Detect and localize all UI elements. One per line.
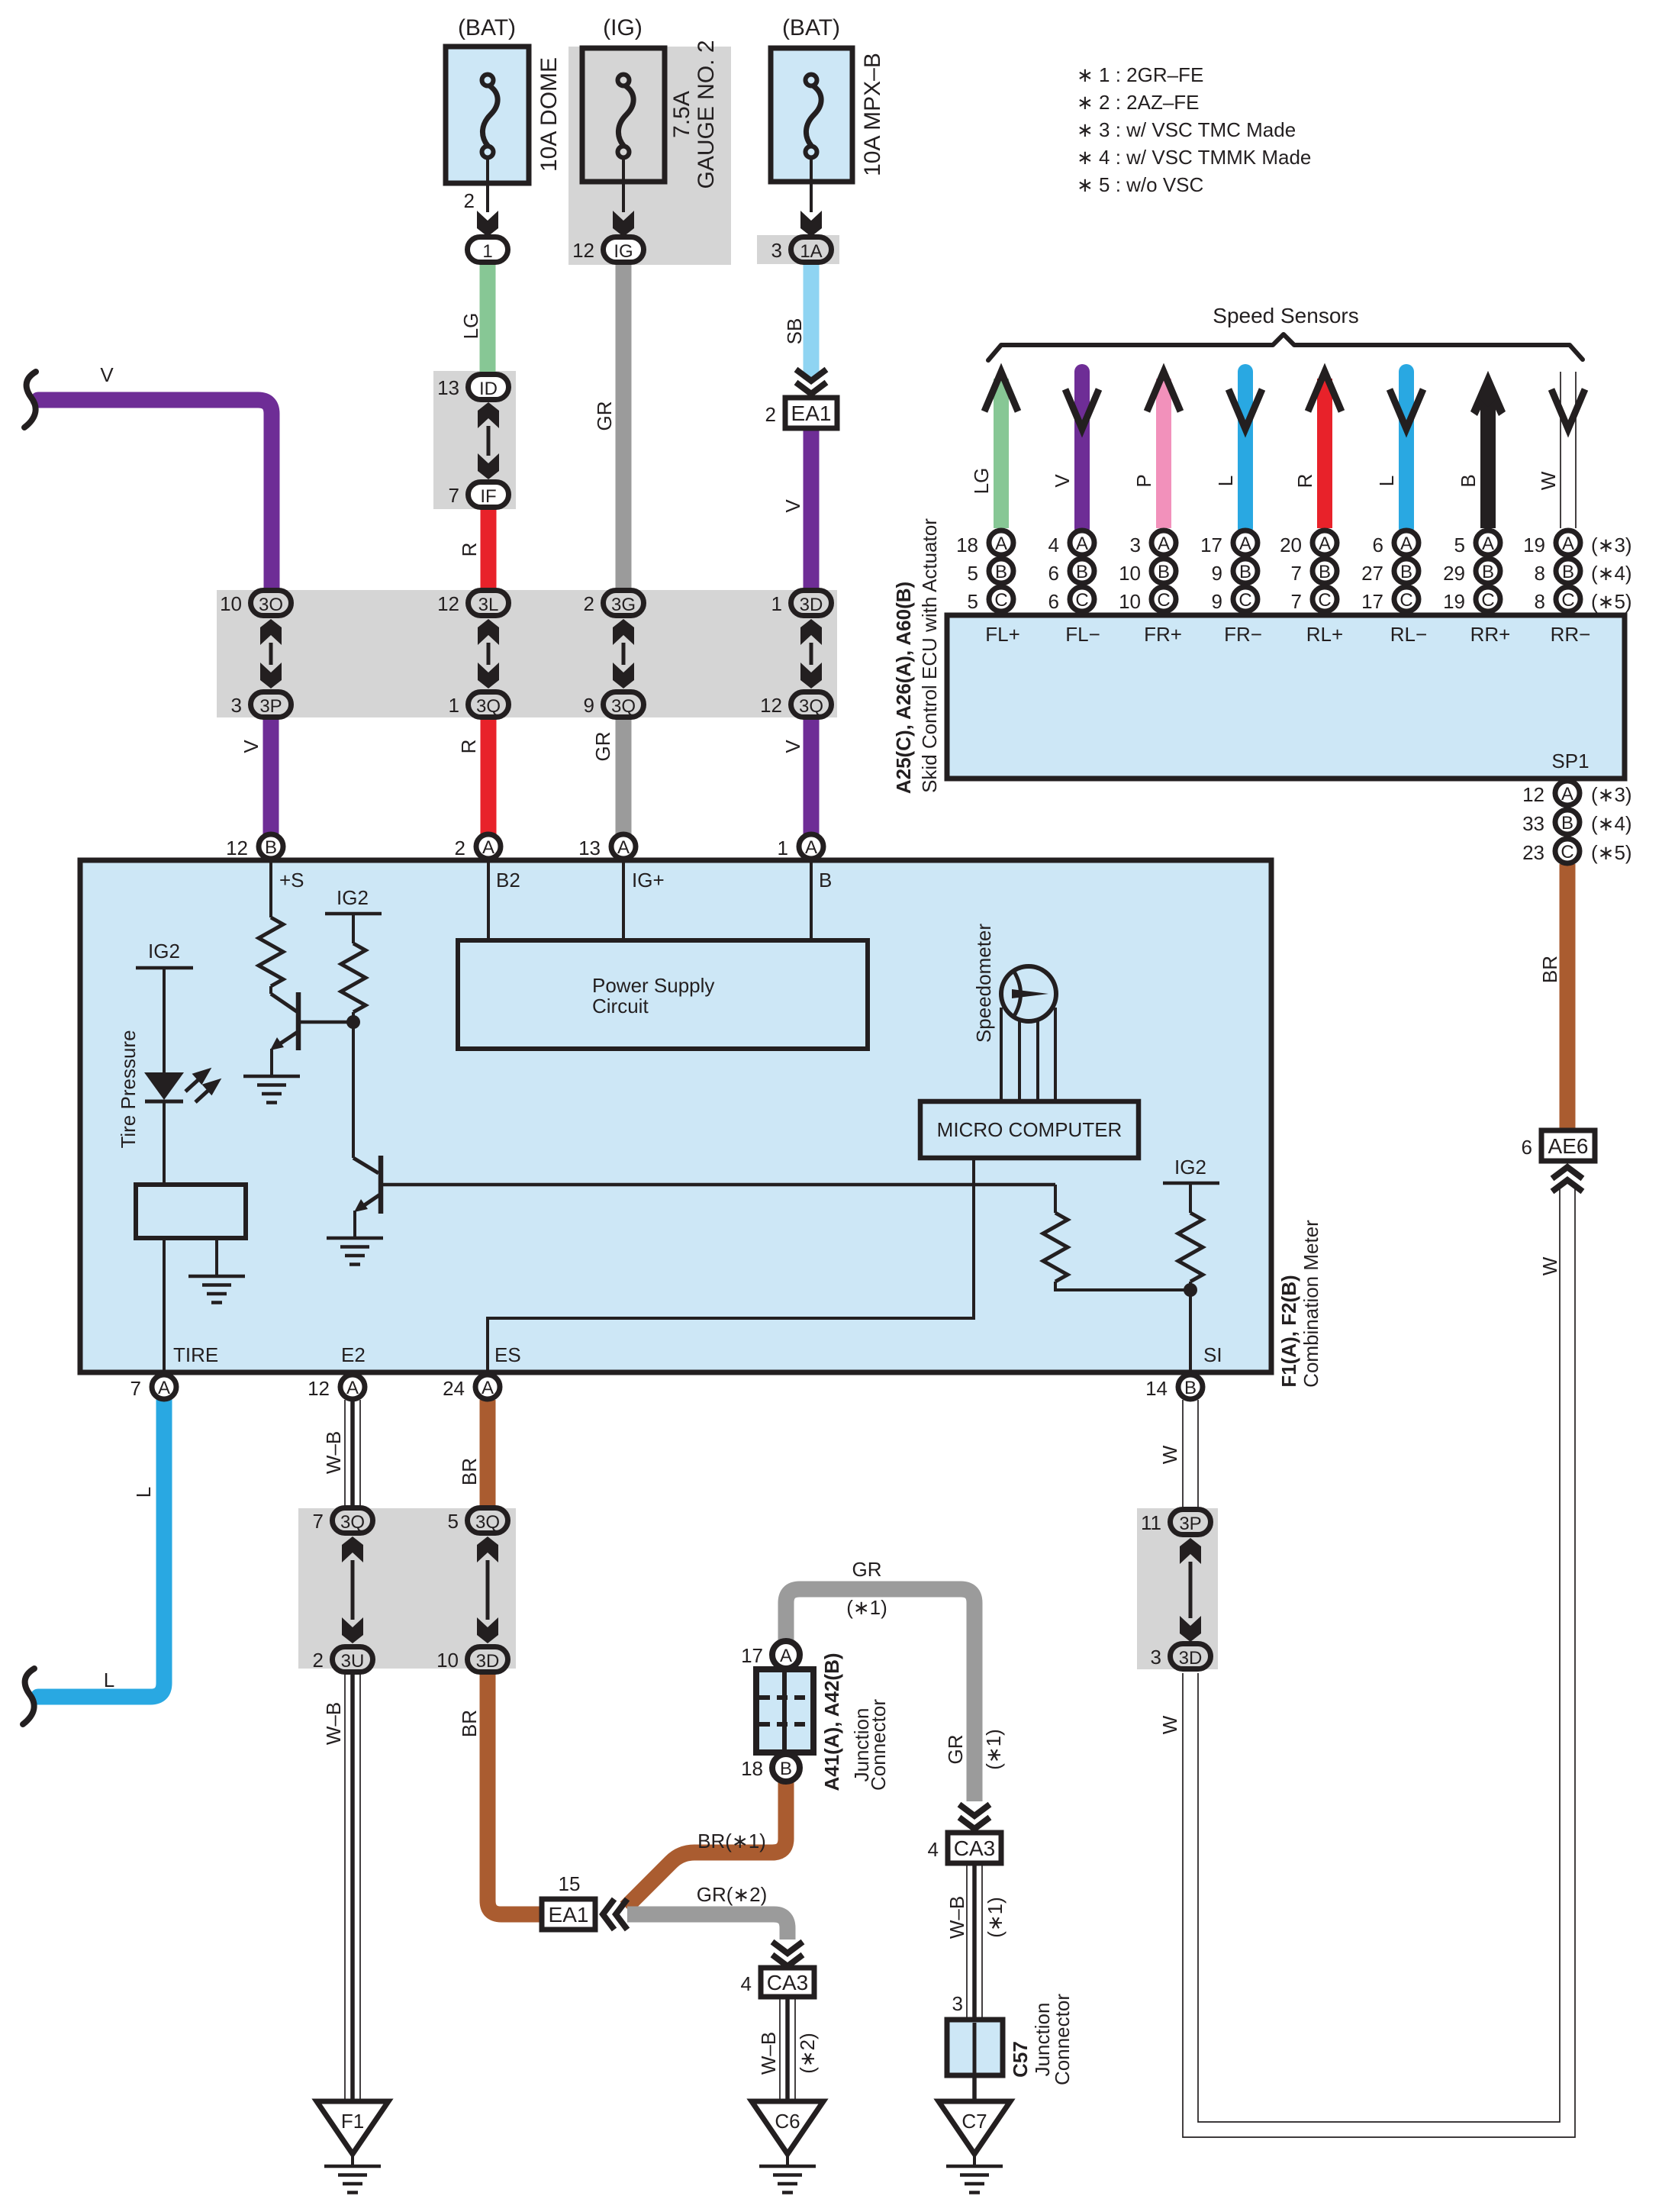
svg-text:2: 2 bbox=[464, 189, 475, 212]
svg-text:A: A bbox=[805, 837, 817, 858]
svg-text:Power Supply: Power Supply bbox=[592, 974, 714, 997]
svg-text:3Q: 3Q bbox=[340, 1512, 365, 1533]
svg-text:W–B: W–B bbox=[945, 1896, 968, 1939]
svg-text:(BAT): (BAT) bbox=[782, 15, 840, 40]
wire R 3Q to meter pin A2 bbox=[481, 717, 497, 835]
svg-text:W: W bbox=[1158, 1715, 1181, 1734]
double arrow 3P-3D bbox=[1180, 1538, 1201, 1564]
svg-text:Skid Control ECU with Actuator: Skid Control ECU with Actuator bbox=[918, 518, 941, 793]
svg-text:A: A bbox=[346, 1378, 359, 1398]
speed sensor FL+ wire LG bbox=[994, 379, 1009, 528]
svg-text:10: 10 bbox=[1119, 562, 1141, 585]
double arrow 3Q-3D bbox=[477, 1536, 498, 1562]
svg-text:3U: 3U bbox=[341, 1651, 365, 1672]
grey panel behind IG fuse bbox=[568, 47, 731, 265]
wire V horizontal from off-page left bbox=[38, 400, 272, 588]
double chevron into EA1 top bbox=[796, 369, 826, 394]
svg-text:IG2: IG2 bbox=[1174, 1156, 1206, 1179]
svg-text:Speedometer: Speedometer bbox=[972, 924, 995, 1043]
svg-text:19: 19 bbox=[1443, 590, 1465, 613]
svg-text:8: 8 bbox=[1535, 590, 1545, 613]
svg-text:6: 6 bbox=[1373, 534, 1383, 556]
svg-text:ID: ID bbox=[479, 379, 498, 399]
svg-text:23: 23 bbox=[1522, 841, 1544, 864]
speed sensor FR+ wire P bbox=[1156, 379, 1171, 528]
wire R connector IF to 3L bbox=[481, 507, 497, 590]
transistor 2 bbox=[353, 1158, 378, 1173]
svg-text:(∗1): (∗1) bbox=[982, 1729, 1005, 1770]
svg-text:12: 12 bbox=[437, 592, 459, 615]
LED tire pressure bbox=[144, 1072, 184, 1100]
wire BR junction connector B to EA1 chevrons bbox=[626, 1775, 786, 1907]
svg-text:33: 33 bbox=[1522, 812, 1544, 835]
wire BR ES pin to 3Q bbox=[480, 1400, 496, 1507]
svg-text:V: V bbox=[100, 363, 114, 386]
svg-text:BR: BR bbox=[1538, 956, 1561, 983]
svg-text:A: A bbox=[158, 1378, 170, 1398]
wire W-B E2 pin to 3Q bbox=[345, 1400, 360, 1507]
svg-text:B: B bbox=[1562, 562, 1574, 582]
+S resistor bbox=[269, 861, 272, 917]
grey panel behind connectors ID/IF bbox=[433, 371, 516, 509]
svg-text:9: 9 bbox=[584, 694, 594, 717]
svg-text:C: C bbox=[1561, 842, 1573, 863]
svg-text:A: A bbox=[1076, 534, 1088, 554]
svg-text:B: B bbox=[1457, 474, 1480, 487]
svg-text:15: 15 bbox=[559, 1872, 581, 1895]
svg-text:R: R bbox=[458, 543, 481, 557]
wire W-B(*1) CA3 to junction connector C57 bbox=[967, 1860, 982, 2020]
svg-text:IF: IF bbox=[480, 486, 496, 507]
svg-text:EA1: EA1 bbox=[549, 1903, 589, 1927]
svg-text:FL−: FL− bbox=[1065, 623, 1100, 646]
svg-text:B: B bbox=[1158, 562, 1170, 582]
svg-text:3: 3 bbox=[952, 1992, 963, 2015]
svg-text:C: C bbox=[1481, 590, 1494, 611]
brace over speed sensors bbox=[988, 334, 1583, 360]
wire BR 3D to EA1 bbox=[488, 1673, 543, 1914]
svg-text:B: B bbox=[1319, 562, 1331, 582]
svg-text:AE6: AE6 bbox=[1548, 1134, 1589, 1158]
svg-text:3: 3 bbox=[1151, 1646, 1161, 1669]
fuse 10A MPX-B bbox=[771, 48, 852, 182]
svg-text:W–B: W–B bbox=[322, 1702, 345, 1745]
svg-text:SI: SI bbox=[1203, 1343, 1222, 1366]
svg-text:(BAT): (BAT) bbox=[458, 15, 516, 40]
svg-text:7: 7 bbox=[130, 1377, 141, 1400]
svg-text:3Q: 3Q bbox=[475, 1512, 500, 1533]
svg-text:(∗4): (∗4) bbox=[1591, 562, 1632, 585]
svg-text:Speed Sensors: Speed Sensors bbox=[1213, 304, 1358, 327]
svg-text:A: A bbox=[1561, 784, 1573, 805]
svg-text:FR+: FR+ bbox=[1144, 623, 1182, 646]
svg-text:11: 11 bbox=[1141, 1511, 1161, 1534]
svg-text:∗ 5 : w/o VSC: ∗ 5 : w/o VSC bbox=[1077, 173, 1203, 196]
svg-text:5: 5 bbox=[1454, 534, 1465, 556]
svg-text:(∗5): (∗5) bbox=[1591, 590, 1632, 613]
svg-text:CA3: CA3 bbox=[767, 1971, 808, 1994]
svg-text:C: C bbox=[1399, 590, 1412, 611]
wire W-B CA3 to ground C6 bbox=[780, 1997, 795, 2101]
svg-text:2: 2 bbox=[455, 837, 465, 859]
svg-text:RR−: RR− bbox=[1551, 623, 1591, 646]
IG2 resistor bbox=[341, 943, 366, 1012]
svg-text:EA1: EA1 bbox=[791, 401, 832, 425]
svg-text:7: 7 bbox=[313, 1510, 324, 1533]
svg-text:W–B: W–B bbox=[322, 1431, 345, 1474]
svg-text:3D: 3D bbox=[476, 1651, 500, 1672]
svg-text:3P: 3P bbox=[1179, 1514, 1201, 1534]
speed sensor FL- wire V bbox=[1074, 372, 1090, 528]
wire SB fuse MPX-B to EA1 bbox=[804, 263, 820, 379]
svg-text:L: L bbox=[104, 1669, 114, 1691]
svg-text:V: V bbox=[781, 499, 804, 513]
svg-text:9: 9 bbox=[1212, 562, 1222, 585]
svg-text:18: 18 bbox=[956, 534, 978, 556]
wire W SI pin to 3P bbox=[1183, 1400, 1198, 1507]
svg-text:A: A bbox=[1562, 534, 1574, 554]
wire W-B 3U to ground F1 bbox=[345, 1673, 360, 2101]
wire BR SP1 C to AE6 bbox=[1560, 864, 1576, 1130]
svg-text:3G: 3G bbox=[611, 595, 636, 615]
svg-text:CA3: CA3 bbox=[954, 1836, 995, 1860]
double arrow 3G-3Q bbox=[613, 619, 634, 645]
svg-text:5: 5 bbox=[968, 590, 978, 613]
svg-text:12: 12 bbox=[572, 239, 594, 262]
svg-text:3L: 3L bbox=[478, 595, 499, 615]
svg-text:12: 12 bbox=[226, 837, 248, 859]
skid control ECU box bbox=[947, 615, 1625, 779]
svg-text:SP1: SP1 bbox=[1551, 750, 1589, 772]
wire LED to relay box bbox=[163, 1101, 166, 1185]
wire LG fuse DOME to ID bbox=[480, 263, 496, 374]
svg-text:(∗3): (∗3) bbox=[1591, 783, 1632, 806]
svg-text:Connector: Connector bbox=[867, 1699, 890, 1791]
svg-text:1A: 1A bbox=[800, 241, 822, 262]
svg-text:7: 7 bbox=[1291, 562, 1302, 585]
svg-text:(∗2): (∗2) bbox=[796, 2033, 819, 2074]
chevrons into EA1 bbox=[603, 1899, 627, 1930]
connector 4 CA3 right bbox=[948, 1833, 1001, 1863]
svg-text:GR: GR bbox=[852, 1558, 882, 1581]
svg-text:C: C bbox=[994, 590, 1007, 611]
svg-text:LG: LG bbox=[459, 313, 482, 340]
svg-text:W: W bbox=[1538, 1256, 1561, 1275]
svg-text:P: P bbox=[1132, 474, 1155, 487]
svg-text:(∗1): (∗1) bbox=[984, 1897, 1007, 1938]
svg-text:5: 5 bbox=[968, 562, 978, 585]
combination meter box bbox=[80, 860, 1271, 1372]
wire GR fuse GAUGE to 3G bbox=[616, 263, 632, 590]
svg-text:3D: 3D bbox=[800, 595, 823, 615]
svg-text:10: 10 bbox=[436, 1649, 459, 1672]
fuse 7.5A GAUGE NO.2 bbox=[582, 48, 665, 182]
svg-text:6: 6 bbox=[1522, 1136, 1532, 1159]
svg-text:3: 3 bbox=[1130, 534, 1141, 556]
ground C7 bbox=[939, 2101, 1010, 2166]
svg-text:3: 3 bbox=[231, 694, 242, 717]
svg-text:8: 8 bbox=[1535, 562, 1545, 585]
svg-text:2: 2 bbox=[584, 592, 594, 615]
wire C57 to ground C7 bbox=[972, 2075, 977, 2101]
svg-text:LG: LG bbox=[970, 468, 993, 495]
svg-text:L: L bbox=[132, 1487, 155, 1498]
wire ES to micro computer bbox=[488, 1158, 974, 1374]
svg-text:3D: 3D bbox=[1179, 1648, 1203, 1669]
svg-text:L: L bbox=[1214, 476, 1237, 486]
svg-text:10A MPX–B: 10A MPX–B bbox=[860, 53, 885, 176]
speed sensor RL+ wire R bbox=[1317, 379, 1332, 528]
svg-text:10: 10 bbox=[1119, 590, 1141, 613]
svg-text:24: 24 bbox=[443, 1377, 465, 1400]
svg-text:12: 12 bbox=[308, 1377, 330, 1400]
connector 4 CA3 left bbox=[761, 1968, 814, 1997]
svg-text:6: 6 bbox=[1048, 562, 1059, 585]
svg-text:17: 17 bbox=[741, 1644, 763, 1667]
svg-text:C57: C57 bbox=[1009, 2041, 1032, 2078]
ground F1 bbox=[317, 2101, 388, 2166]
ground C6 bbox=[752, 2101, 823, 2166]
svg-text:(∗3): (∗3) bbox=[1591, 534, 1632, 556]
svg-text:3Q: 3Q bbox=[799, 696, 823, 717]
transistor 1 bbox=[269, 986, 272, 994]
svg-text:(∗1): (∗1) bbox=[846, 1596, 887, 1619]
svg-text:A: A bbox=[1319, 534, 1331, 554]
svg-text:4: 4 bbox=[741, 1972, 752, 1995]
connector EA1 bottom bbox=[542, 1899, 595, 1930]
svg-text:1: 1 bbox=[771, 592, 782, 615]
connector 1 bbox=[468, 237, 508, 263]
svg-text:B: B bbox=[265, 837, 277, 858]
svg-text:A: A bbox=[780, 1646, 792, 1666]
svg-text:FL+: FL+ bbox=[985, 623, 1020, 646]
svg-text:∗ 3 : w/ VSC TMC Made: ∗ 3 : w/ VSC TMC Made bbox=[1077, 118, 1296, 141]
svg-text:(∗5): (∗5) bbox=[1591, 841, 1632, 864]
power supply circuit box bbox=[487, 861, 490, 940]
wire V 3Q to meter pin A1 bbox=[804, 717, 820, 835]
svg-text:3Q: 3Q bbox=[611, 696, 636, 717]
svg-text:A: A bbox=[482, 1378, 494, 1398]
grey band with instrument panel connectors 3O/3P 3L/3Q 3G/3Q 3D/3Q bbox=[217, 590, 837, 717]
svg-text:7: 7 bbox=[449, 484, 459, 507]
double arrow 3O-3P bbox=[260, 619, 282, 645]
svg-text:20: 20 bbox=[1280, 534, 1302, 556]
svg-text:3P: 3P bbox=[259, 696, 282, 717]
svg-text:Circuit: Circuit bbox=[592, 995, 649, 1017]
svg-text:B: B bbox=[1561, 813, 1573, 834]
svg-text:ES: ES bbox=[494, 1343, 521, 1366]
svg-text:C: C bbox=[1561, 590, 1574, 611]
svg-text:GAUGE NO. 2: GAUGE NO. 2 bbox=[694, 40, 719, 189]
svg-text:A: A bbox=[995, 534, 1007, 554]
svg-text:1: 1 bbox=[778, 837, 788, 859]
speed sensor RR- wire W bbox=[1561, 372, 1576, 528]
svg-text:13: 13 bbox=[437, 376, 459, 399]
svg-text:F1: F1 bbox=[341, 2110, 364, 2133]
svg-text:A: A bbox=[617, 837, 630, 858]
svg-text:B: B bbox=[780, 1759, 792, 1779]
svg-text:V: V bbox=[240, 740, 263, 753]
double arrow 3L-3Q bbox=[478, 619, 499, 645]
svg-text:9: 9 bbox=[1212, 590, 1222, 613]
svg-text:C7: C7 bbox=[961, 2110, 987, 2133]
svg-text:29: 29 bbox=[1443, 562, 1465, 585]
junction connector C57 bbox=[947, 2020, 1003, 2075]
double chevron under AE6 bbox=[1552, 1167, 1583, 1191]
svg-text:A41(A), A42(B): A41(A), A42(B) bbox=[820, 1653, 843, 1791]
svg-text:27: 27 bbox=[1361, 562, 1383, 585]
svg-text:E2: E2 bbox=[341, 1343, 366, 1366]
resistor from transistor 2 collector bbox=[1054, 1185, 1057, 1213]
wire GR(*2) EA1 chevrons to CA3 bbox=[627, 1914, 788, 1940]
svg-text:2: 2 bbox=[765, 403, 776, 426]
svg-text:A: A bbox=[1400, 534, 1412, 554]
junction dot base transistor 1 bbox=[346, 1015, 360, 1029]
svg-text:17: 17 bbox=[1361, 590, 1383, 613]
svg-text:4: 4 bbox=[1048, 534, 1059, 556]
svg-text:MICRO COMPUTER: MICRO COMPUTER bbox=[937, 1118, 1122, 1141]
wire relay box to TIRE pin bbox=[163, 1238, 166, 1374]
svg-text:∗ 2 : 2AZ–FE: ∗ 2 : 2AZ–FE bbox=[1077, 91, 1200, 114]
IG2 resistor right bbox=[1178, 1213, 1203, 1282]
double arrow 3D-3Q bbox=[800, 619, 822, 645]
fuse 10A DOME bbox=[446, 47, 529, 183]
wire GR 3Q to meter pin A13 bbox=[616, 717, 632, 835]
svg-text:GR: GR bbox=[593, 401, 616, 431]
svg-text:Combination Meter: Combination Meter bbox=[1300, 1220, 1322, 1388]
svg-text:W–B: W–B bbox=[757, 2032, 780, 2075]
svg-text:17: 17 bbox=[1200, 534, 1222, 556]
wire V EA1 to 3D bbox=[804, 428, 820, 590]
svg-text:∗ 1 : 2GR–FE: ∗ 1 : 2GR–FE bbox=[1077, 63, 1203, 86]
svg-text:A: A bbox=[1158, 534, 1170, 554]
connector 2 EA1 top bbox=[785, 398, 837, 428]
svg-text:∗ 4 : w/ VSC TMMK Made: ∗ 4 : w/ VSC TMMK Made bbox=[1077, 146, 1311, 169]
svg-text:A: A bbox=[1239, 534, 1251, 554]
svg-text:RL−: RL− bbox=[1390, 623, 1427, 646]
svg-text:GR: GR bbox=[591, 732, 614, 762]
svg-text:Tire Pressure: Tire Pressure bbox=[117, 1030, 140, 1148]
svg-text:C: C bbox=[1238, 590, 1251, 611]
svg-text:7: 7 bbox=[1291, 590, 1302, 613]
svg-text:V: V bbox=[1051, 474, 1074, 488]
svg-text:IG+: IG+ bbox=[632, 869, 665, 892]
svg-text:GR: GR bbox=[944, 1735, 967, 1765]
svg-text:TIRE: TIRE bbox=[173, 1343, 218, 1366]
svg-text:1: 1 bbox=[482, 241, 492, 262]
svg-text:C6: C6 bbox=[775, 2110, 800, 2133]
svg-text:+S: +S bbox=[279, 869, 304, 892]
svg-text:3: 3 bbox=[771, 239, 782, 262]
tire pressure relay box bbox=[136, 1185, 246, 1238]
svg-text:F1(A), F2(B): F1(A), F2(B) bbox=[1277, 1275, 1300, 1387]
svg-text:Connector: Connector bbox=[1051, 1994, 1074, 2085]
svg-text:B: B bbox=[995, 562, 1007, 582]
svg-text:BR: BR bbox=[458, 1458, 481, 1485]
double arrow ID-IF bbox=[478, 402, 499, 428]
svg-text:C: C bbox=[1075, 590, 1088, 611]
svg-text:V: V bbox=[781, 740, 804, 753]
svg-text:14: 14 bbox=[1145, 1377, 1168, 1400]
svg-text:RL+: RL+ bbox=[1306, 623, 1343, 646]
svg-text:C: C bbox=[1157, 590, 1170, 611]
break symbol left L wire bbox=[23, 1669, 34, 1724]
svg-text:GR(∗2): GR(∗2) bbox=[697, 1883, 768, 1906]
svg-text:BR: BR bbox=[458, 1710, 481, 1737]
connector 6 AE6 bbox=[1541, 1130, 1595, 1161]
svg-text:R: R bbox=[457, 740, 480, 754]
grey panel behind connectors 3P/3D (right) bbox=[1137, 1508, 1218, 1669]
svg-text:3Q: 3Q bbox=[476, 696, 501, 717]
svg-text:5: 5 bbox=[448, 1510, 459, 1533]
svg-text:RR+: RR+ bbox=[1470, 623, 1511, 646]
svg-text:W: W bbox=[1537, 471, 1560, 490]
svg-text:13: 13 bbox=[578, 837, 601, 859]
svg-text:IG2: IG2 bbox=[337, 886, 369, 909]
svg-text:A: A bbox=[1482, 534, 1494, 554]
svg-text:10: 10 bbox=[220, 592, 242, 615]
svg-text:SB: SB bbox=[783, 318, 806, 345]
svg-text:A25(C), A26(A), A60(B): A25(C), A26(A), A60(B) bbox=[892, 582, 915, 794]
svg-text:B: B bbox=[1184, 1378, 1197, 1398]
svg-text:R: R bbox=[1293, 474, 1316, 489]
svg-text:1: 1 bbox=[449, 694, 459, 717]
svg-text:W: W bbox=[1158, 1445, 1181, 1464]
svg-text:B: B bbox=[1076, 562, 1088, 582]
svg-text:4: 4 bbox=[928, 1838, 939, 1861]
double arrow 3Q-3U bbox=[342, 1536, 363, 1562]
svg-text:B: B bbox=[1239, 562, 1251, 582]
grey panel behind connectors 3Q/3U and 3Q/3D (bottom left) bbox=[298, 1508, 516, 1669]
junction dot SI bbox=[1184, 1283, 1197, 1297]
svg-text:IG2: IG2 bbox=[148, 940, 180, 963]
svg-text:3O: 3O bbox=[259, 595, 283, 615]
wire V 3P to meter pin B bbox=[263, 717, 279, 835]
svg-text:B: B bbox=[819, 869, 832, 892]
grey panel behind connector 1A bbox=[757, 235, 839, 264]
speed sensor FR- wire L bbox=[1238, 372, 1253, 528]
svg-text:(IG): (IG) bbox=[603, 15, 643, 40]
micro computer box bbox=[920, 1101, 1139, 1158]
chevrons into CA3 left bbox=[772, 1942, 803, 1966]
svg-text:10A DOME: 10A DOME bbox=[536, 57, 562, 172]
wire junction to transistor 2 bbox=[352, 1022, 355, 1158]
svg-text:7.5A: 7.5A bbox=[669, 91, 694, 138]
svg-text:L: L bbox=[1375, 476, 1398, 486]
svg-text:A: A bbox=[482, 837, 494, 858]
svg-text:B2: B2 bbox=[496, 869, 520, 892]
svg-text:C: C bbox=[1318, 590, 1331, 611]
svg-text:B: B bbox=[1482, 562, 1494, 582]
svg-text:12: 12 bbox=[1522, 783, 1544, 806]
svg-text:B: B bbox=[1400, 562, 1412, 582]
speedometer symbol bbox=[1001, 1008, 1055, 1102]
speed sensor RL- wire L bbox=[1399, 372, 1414, 528]
svg-text:FR−: FR− bbox=[1224, 623, 1262, 646]
svg-text:12: 12 bbox=[760, 694, 782, 717]
svg-text:6: 6 bbox=[1048, 590, 1059, 613]
speed sensor RR+ wire B solid arrow bbox=[1480, 397, 1496, 528]
chevrons into CA3 right bbox=[959, 1804, 990, 1829]
svg-text:19: 19 bbox=[1523, 534, 1545, 556]
svg-text:2: 2 bbox=[313, 1649, 324, 1672]
wire W 3D loop to AE6 chevrons bbox=[1183, 1188, 1575, 2137]
wire L TIRE pin to off-page left bbox=[38, 1400, 164, 1697]
svg-text:BR(∗1): BR(∗1) bbox=[697, 1830, 766, 1852]
svg-text:18: 18 bbox=[741, 1757, 763, 1780]
svg-text:(∗4): (∗4) bbox=[1591, 812, 1632, 835]
ground inside meter left bbox=[215, 1238, 218, 1275]
